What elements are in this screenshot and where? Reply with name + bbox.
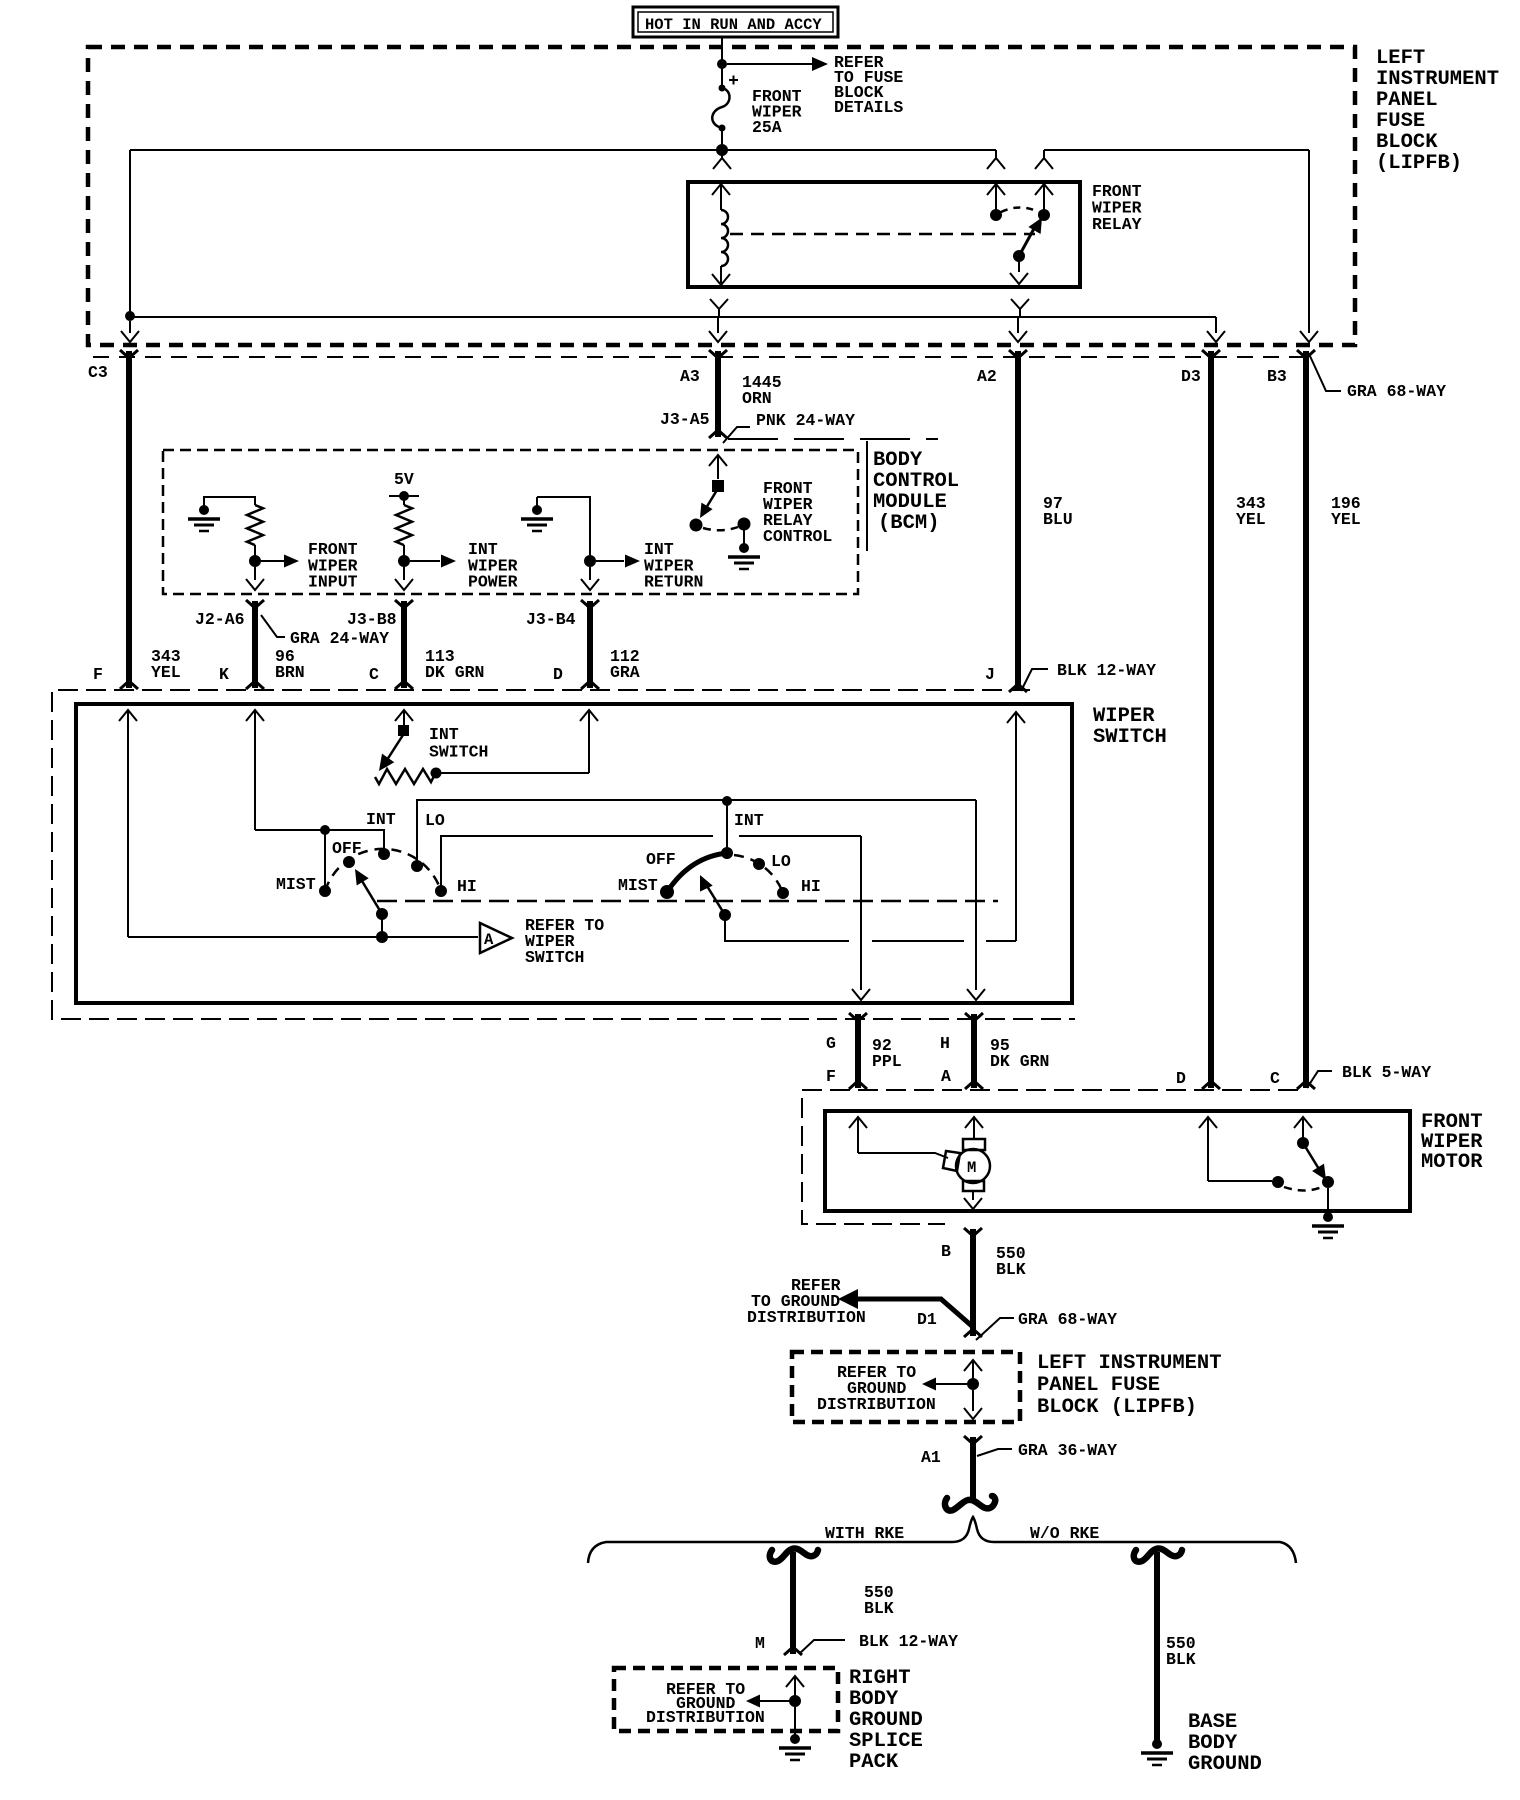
arrow: A3 output leaving fuse block [709, 317, 727, 342]
wire 112 GRA BCM J3-B4 to switch pin D [587, 601, 593, 688]
wire 550 BLK with-RKE branch [790, 1552, 796, 1654]
svg-text:A: A [484, 931, 494, 949]
svg-text:LEFT: LEFT [1376, 47, 1425, 70]
label REFER TO WIPER SWITCH [525, 916, 604, 967]
park switch park contact node [1322, 1176, 1334, 1188]
svg-text:BODY: BODY [849, 1688, 899, 1711]
label REFER TO FUSE BLOCK DETAILS [834, 53, 903, 117]
svg-text:D: D [1176, 1069, 1186, 1088]
switch 2 pivot lower node [719, 909, 731, 921]
node int wiper power [398, 555, 410, 567]
label INT WIPER POWER [468, 540, 518, 592]
options split bracket WITH RKE / W-O RKE [588, 1517, 1296, 1563]
relay control common node [690, 519, 703, 532]
label FRONT WIPER INPUT [308, 540, 358, 592]
wire ground to int wiper return node [537, 497, 590, 555]
value label 113 DK GRN [425, 647, 484, 682]
svg-text:F: F [826, 1067, 836, 1086]
svg-text:K: K [219, 665, 229, 684]
svg-text:BASE: BASE [1188, 1711, 1237, 1734]
LIPFB internal ground node [967, 1378, 979, 1390]
park switch common node [1297, 1137, 1309, 1149]
svg-text:J3-A5: J3-A5 [660, 410, 710, 429]
relay contact dashed throw arc [1001, 208, 1039, 213]
contact HI (switch 2) [777, 887, 789, 899]
svg-text:GRA 68-WAY: GRA 68-WAY [1018, 1310, 1117, 1329]
arrow: C3 output leaving fuse block [121, 321, 139, 342]
arrow: refer to fuse block details [727, 57, 828, 71]
svg-text:YEL: YEL [1236, 510, 1266, 529]
wire pin D to park contact [1208, 1180, 1272, 1182]
title BASE BODY GROUND [1188, 1711, 1262, 1776]
relay common node [1013, 250, 1025, 262]
value label 112 GRA [610, 647, 640, 682]
junction node at fuse input [717, 59, 727, 69]
relay coil [712, 184, 730, 285]
arrow into splice pack [786, 1676, 804, 1697]
arrow switch pin F input [119, 710, 137, 937]
park switch dashed throw arc [1284, 1187, 1322, 1191]
svg-text:WITH RKE: WITH RKE [825, 1524, 904, 1543]
svg-text:POWER: POWER [468, 573, 518, 592]
wire 550 BLK LIPFB A1 to splice options [970, 1437, 976, 1500]
relay FRONT WIPER RELAY box [688, 182, 1080, 287]
svg-text:RETURN: RETURN [644, 573, 703, 592]
connector label GRA 36-WAY with leader [977, 1441, 1117, 1460]
svg-text:BLK 12-WAY: BLK 12-WAY [1057, 661, 1156, 680]
svg-text:BLK 12-WAY: BLK 12-WAY [859, 1632, 958, 1651]
svg-text:HI: HI [457, 877, 477, 896]
svg-text:BLK: BLK [1166, 1650, 1196, 1669]
splice pack RIGHT BODY GROUND SPLICE PACK dashed box [614, 1668, 838, 1731]
wire 343 YEL from D3 to wiper motor pin D [1208, 351, 1214, 1088]
svg-text:DETAILS: DETAILS [834, 98, 903, 117]
svg-text:HI: HI [801, 877, 821, 896]
left instrument panel fuse block dashed boundary (LIPFB) [88, 47, 1355, 345]
svg-text:SWITCH: SWITCH [429, 743, 488, 762]
arrow INT WIPER POWER [410, 555, 456, 568]
arrow into LIPFB ground bus [964, 1360, 982, 1380]
wire: fuse output bus (left segment) [130, 149, 996, 151]
relay control dashed throw arc [703, 527, 738, 530]
motor M1 armature [956, 1139, 990, 1191]
ground base body ground [1152, 1739, 1162, 1749]
svg-text:M: M [755, 1634, 765, 1653]
switch 2 heavy blade to MIST [667, 853, 727, 892]
arrow: B3 output leaving fuse block [1300, 331, 1318, 342]
wire pin H drop [975, 800, 977, 990]
connector strip dashed line PNK 24-WAY [728, 438, 938, 440]
contact INT (switch 1) [378, 848, 390, 860]
resistor R pull-up front wiper input [247, 505, 263, 545]
switch 1 pivot node [376, 908, 388, 920]
splice pack internal node [789, 1695, 801, 1707]
value label 95 DK GRN [990, 1036, 1049, 1071]
node int switch resistor output [431, 768, 442, 779]
arrow: D3 output leaving fuse block [1207, 317, 1225, 342]
arrow motor internal to pin B [964, 1191, 982, 1209]
svg-text:(LIPFB): (LIPFB) [1376, 152, 1462, 175]
connector strip dashed line GRA 68-WAY [93, 356, 1313, 358]
svg-text:B: B [941, 1242, 951, 1261]
svg-text:MODULE: MODULE [873, 491, 947, 514]
junction node INT2 on rail [722, 796, 732, 806]
svg-text:H: H [940, 1034, 950, 1053]
wire pin G drop [860, 836, 862, 990]
ground motor case [1323, 1212, 1333, 1222]
svg-text:A2: A2 [977, 367, 997, 386]
ground inside BCM (int wiper return) [521, 497, 553, 531]
junction node left drop [125, 311, 135, 321]
svg-text:LO: LO [425, 811, 445, 830]
splice hook at WITH RKE branch top [770, 1549, 818, 1562]
svg-text:SWITCH: SWITCH [525, 948, 584, 967]
connector Y below relay common [1011, 299, 1029, 317]
title BODY CONTROL MODULE (BCM) [867, 441, 959, 551]
wire: bus drop on left to C3 feed [129, 150, 131, 316]
connector symbol relay switched pin 87 [1035, 150, 1053, 169]
dashed position arc switch 1 [325, 849, 441, 891]
connector label GRA 68-WAY lower with leader [976, 1310, 1117, 1340]
arrow INT WIPER RETURN [596, 555, 640, 568]
label FRONT WIPER RELAY CONTROL [763, 479, 832, 546]
svg-text:DK GRN: DK GRN [425, 663, 484, 682]
park switch blade with arrow [1303, 1143, 1326, 1180]
title LEFT INSTRUMENT PANEL FUSE BLOCK (LIPFB) [1376, 47, 1499, 175]
arrow motor pin A input [965, 1117, 983, 1139]
wire 92 PPL switch G to motor F [855, 1014, 861, 1088]
int switch blade with arrow [379, 735, 403, 771]
title WIPER SWITCH [1093, 705, 1167, 749]
splice hook at W/O RKE branch top [1134, 1549, 1182, 1562]
relay internal dashed link [730, 233, 1035, 236]
wire 113 DK GRN BCM J3-B8 to switch pin C [401, 601, 407, 688]
value label 343 YEL (right) [1236, 494, 1266, 529]
connector symbol relay coil supply pin 86 [987, 150, 1005, 169]
arrow BCM pin J3-B8 output [395, 567, 413, 590]
svg-text:SWITCH: SWITCH [1093, 726, 1167, 749]
arrow switch pin C input [395, 710, 413, 731]
contact OFF (switch 1) [343, 856, 355, 868]
arrow FRONT WIPER INPUT [261, 555, 299, 568]
resistor int switch delay [375, 769, 435, 784]
svg-text:G: G [826, 1034, 836, 1053]
svg-text:SPLICE: SPLICE [849, 1730, 923, 1753]
svg-text:LO: LO [771, 852, 791, 871]
wire: fuse output bus (right segment) [1044, 149, 1309, 151]
switch WIPER SWITCH box [76, 704, 1072, 1003]
dashed position arc switch 2 [734, 855, 783, 893]
svg-text:MIST: MIST [276, 875, 316, 894]
wire common rail pin F to triangle A [128, 936, 478, 938]
label REFER TO GROUND DISTRIBUTION (inside LIPFB) [817, 1363, 936, 1414]
relay control switch blade with arrow [700, 490, 717, 518]
arrow BCM front wiper relay control input [709, 455, 727, 479]
svg-text:BLK 5-WAY: BLK 5-WAY [1342, 1063, 1431, 1082]
value label 196 YEL [1331, 494, 1361, 529]
label FRONT WIPER 25A [752, 87, 802, 137]
wire 550 BLK w/o-RKE branch [1154, 1552, 1160, 1740]
value label 92 PPL [872, 1036, 902, 1071]
label INT WIPER RETURN [644, 540, 703, 592]
wire ground to pull resistor [204, 497, 255, 505]
wire 97 BLU from A2 to wiper switch pin J [1015, 351, 1021, 691]
relay control second contact node [738, 518, 751, 531]
svg-text:PNK 24-WAY: PNK 24-WAY [756, 411, 855, 430]
svg-text:(BCM): (BCM) [878, 512, 940, 535]
arrow BCM pin J2-A6 output [246, 567, 264, 590]
value label 550 BLK (motor) [996, 1244, 1026, 1279]
svg-text:PPL: PPL [872, 1052, 902, 1071]
svg-text:FUSE: FUSE [1376, 110, 1425, 133]
relay contact node 2 [1038, 209, 1050, 221]
motor outer dashed boundary [802, 1090, 1298, 1224]
label FRONT WIPER RELAY [1092, 182, 1142, 234]
wire 1445 ORN from A3 to BCM J3-A5 [715, 351, 721, 437]
svg-text:INT: INT [734, 811, 764, 830]
connector Y below relay coil [710, 299, 728, 317]
svg-text:BRN: BRN [275, 663, 305, 682]
relay contact pin arrow (86) [987, 184, 1005, 210]
wire switch 2 pivot to pin J rail [725, 915, 1016, 941]
svg-text:A: A [941, 1067, 951, 1086]
svg-text:CONTROL: CONTROL [763, 527, 832, 546]
svg-text:D3: D3 [1181, 367, 1201, 386]
ground inside BCM (relay control) [728, 529, 760, 569]
svg-text:F: F [93, 665, 103, 684]
relay contact pin arrow (87) [1035, 184, 1053, 210]
int switch wiper contact (square) [398, 725, 409, 736]
value label 550 BLK (w/o RKE) [1166, 1634, 1196, 1669]
svg-text:GROUND: GROUND [1188, 1753, 1262, 1776]
connector label BLK 12-WAY lower with leader [799, 1632, 958, 1654]
svg-text:YEL: YEL [1331, 510, 1361, 529]
svg-text:PANEL: PANEL [1376, 89, 1438, 112]
wire: hot feed from HOT IN RUN AND ACCY into fuse block [721, 37, 723, 64]
svg-text:GROUND: GROUND [849, 1709, 923, 1732]
arrow LIPFB to ground distribution [922, 1378, 967, 1391]
contact HI (switch 1) [435, 885, 447, 897]
arrow LIPFB ground bus output [964, 1390, 982, 1419]
svg-text:5V: 5V [394, 470, 414, 489]
svg-text:DISTRIBUTION: DISTRIBUTION [817, 1395, 936, 1414]
svg-text:DISTRIBUTION: DISTRIBUTION [646, 1708, 765, 1727]
connector label GRA 24-WAY with leader [261, 615, 389, 648]
value label 550 BLK (with RKE) [864, 1583, 894, 1618]
label REFER TO GROUND DISTRIBUTION (upper) [747, 1276, 866, 1327]
motor FRONT WIPER MOTOR box [825, 1111, 1410, 1211]
arrow pin G output [852, 989, 870, 1000]
splice hook at A1 wire end [945, 1496, 995, 1511]
svg-text:BLOCK: BLOCK [1376, 131, 1438, 154]
wire down to MIST contact [324, 830, 326, 889]
value label 1445 ORN [742, 373, 782, 408]
arrow pin H output [967, 989, 985, 1000]
arrow refer to ground distribution (heavy) [838, 1289, 973, 1327]
value label 96 BRN [275, 647, 305, 682]
connector label PNK 24-WAY with leader [723, 411, 855, 443]
triangle reference A [480, 923, 512, 953]
wire park contact to motor case ground [1327, 1188, 1329, 1214]
svg-text:GRA 68-WAY: GRA 68-WAY [1347, 382, 1446, 401]
wire splice pack to body ground [794, 1707, 796, 1736]
svg-text:PANEL FUSE: PANEL FUSE [1037, 1374, 1160, 1397]
svg-text:BLOCK (LIPFB): BLOCK (LIPFB) [1037, 1396, 1197, 1419]
wire resistor to pin D stem [436, 772, 589, 774]
svg-text:J3-B8: J3-B8 [347, 610, 397, 629]
fuse FRONT WIPER 25A [712, 64, 738, 150]
wire: lower bus from left drop to relay output [130, 316, 1216, 318]
contact MIST (switch 2) [660, 885, 674, 899]
ground inside BCM (front wiper input) [188, 496, 220, 531]
mechanical linkage dashed line between switches [377, 900, 998, 903]
arrow splice pack to ground distribution [746, 1695, 789, 1708]
svg-text:J: J [985, 665, 995, 684]
value label 343 YEL (left) [151, 647, 181, 682]
wire 95 DK GRN switch H to motor A [971, 1014, 977, 1088]
svg-text:INSTRUMENT: INSTRUMENT [1376, 68, 1499, 91]
label REFER TO GROUND DISTRIBUTION (splice pack) [646, 1680, 765, 1727]
relay contact node 1 [990, 209, 1002, 221]
title FRONT WIPER MOTOR [1421, 1111, 1483, 1174]
svg-text:MIST: MIST [618, 876, 658, 895]
svg-text:D1: D1 [917, 1310, 937, 1329]
relay switch blade with arrow [1019, 218, 1042, 257]
svg-text:GRA 24-WAY: GRA 24-WAY [290, 629, 389, 648]
svg-text:25A: 25A [752, 118, 782, 137]
relay control driver contact (square) [712, 480, 724, 492]
svg-text:YEL: YEL [151, 663, 181, 682]
ground right body ground [790, 1734, 800, 1744]
arrow motor pin D input [1199, 1117, 1217, 1181]
relay common output arrow [1010, 256, 1028, 284]
arrow switch pin K input [246, 710, 264, 830]
contact LO (switch 1) [411, 860, 423, 872]
svg-text:OFF: OFF [332, 839, 362, 858]
arrow BCM pin J3-B4 output [581, 567, 599, 590]
svg-text:BLK: BLK [864, 1599, 894, 1618]
svg-text:GRA: GRA [610, 663, 640, 682]
junction node on common rail [376, 931, 388, 943]
resistor R int wiper power [396, 505, 412, 545]
arrow: A2 output leaving fuse block [1009, 317, 1027, 342]
connector label BLK 12-WAY with leader (wiper switch) [1021, 661, 1156, 691]
node front wiper input [249, 555, 261, 567]
switch 2 pivot/INT contact node [721, 847, 733, 859]
contact LO (switch 2) [753, 858, 765, 870]
svg-text:BODY: BODY [873, 449, 923, 472]
svg-text:J2-A6: J2-A6 [195, 610, 245, 629]
arrow switch pin J input [1007, 712, 1025, 941]
connector symbol below fuse output [713, 150, 731, 169]
svg-text:WIPER: WIPER [1093, 705, 1155, 728]
contact MIST (switch 1) [319, 885, 331, 897]
park switch run contact node [1272, 1176, 1284, 1188]
switch 2 position arrow [700, 875, 725, 915]
wire HI1 to pin G rail [441, 836, 861, 889]
label INT SWITCH [429, 725, 488, 762]
wire INT2 down to pivot [726, 801, 728, 851]
connector label GRA 68-WAY with leader [1310, 356, 1446, 401]
wire: bus drop right to B3 [1308, 150, 1310, 333]
svg-text:MOTOR: MOTOR [1421, 1151, 1483, 1174]
fuse block LEFT INSTRUMENT PANEL FUSE BLOCK (LIPFB) dashed box [792, 1352, 1020, 1422]
svg-text:W/O RKE: W/O RKE [1030, 1524, 1099, 1543]
svg-text:INT: INT [429, 725, 459, 744]
svg-text:C: C [1270, 1069, 1280, 1088]
svg-text:J3-B4: J3-B4 [526, 610, 576, 629]
junction node: fuse output on bus [716, 144, 728, 156]
svg-text:C: C [369, 665, 379, 684]
node int wiper return [584, 555, 596, 567]
svg-text:ORN: ORN [742, 389, 772, 408]
svg-text:CONTROL: CONTROL [873, 470, 959, 493]
svg-text:BODY: BODY [1188, 1732, 1238, 1755]
title RIGHT BODY GROUND SPLICE PACK [849, 1667, 923, 1774]
value label 97 BLU [1043, 494, 1073, 529]
svg-text:B3: B3 [1267, 367, 1287, 386]
svg-text:DK GRN: DK GRN [990, 1052, 1049, 1071]
svg-text:A1: A1 [921, 1448, 941, 1467]
supply 5V tick node [389, 491, 419, 501]
arrow motor pin C input [1294, 1117, 1312, 1140]
switch 1 blade with arrow pointing OFF [355, 869, 382, 914]
svg-text:PACK: PACK [849, 1751, 899, 1774]
arrow switch pin D input [580, 710, 598, 773]
svg-text:BLK: BLK [996, 1260, 1026, 1279]
wire 196 YEL from B3 to wiper motor pin C [1303, 351, 1309, 1088]
wire 550 BLK motor B to LIPFB D1 [970, 1229, 976, 1336]
wire 96 BRN BCM J2-A6 to switch pin K [252, 601, 258, 688]
svg-text:INPUT: INPUT [308, 573, 358, 592]
connector label BLK 5-WAY with leader [1307, 1063, 1431, 1088]
title LEFT INSTRUMENT PANEL FUSE BLOCK (LIPFB) lower [1037, 1352, 1222, 1419]
svg-text:DISTRIBUTION: DISTRIBUTION [747, 1308, 866, 1327]
svg-text:HOT IN RUN AND ACCY: HOT IN RUN AND ACCY [645, 16, 822, 34]
svg-text:D: D [553, 665, 563, 684]
svg-text:INT: INT [366, 810, 396, 829]
power label HOT IN RUN AND ACCY [633, 7, 838, 37]
module BODY CONTROL MODULE (BCM) dashed box [163, 450, 858, 594]
svg-text:A3: A3 [680, 367, 700, 386]
arrow motor pin F input [849, 1117, 867, 1153]
wiper switch outer dashed boundary [52, 690, 1075, 1019]
junction node MIST branch [320, 825, 330, 835]
motor brush block left [943, 1151, 960, 1171]
svg-text:OFF: OFF [646, 850, 676, 869]
svg-text:C3: C3 [88, 363, 108, 382]
wire LO1 to INT2 rail [417, 800, 976, 864]
svg-text:BLU: BLU [1043, 510, 1073, 529]
svg-text:RELAY: RELAY [1092, 215, 1142, 234]
wire motor pin F to motor brush [858, 1153, 948, 1158]
wire 343 YEL from C3 to wiper switch pin F [126, 351, 132, 688]
svg-text:GRA 36-WAY: GRA 36-WAY [1018, 1441, 1117, 1460]
svg-text:LEFT INSTRUMENT: LEFT INSTRUMENT [1037, 1352, 1222, 1375]
wire pivot to common rail [381, 914, 383, 937]
svg-text:RIGHT: RIGHT [849, 1667, 911, 1690]
svg-text:M: M [967, 1159, 976, 1177]
wire pin K to MIST/INT contacts [255, 830, 384, 851]
